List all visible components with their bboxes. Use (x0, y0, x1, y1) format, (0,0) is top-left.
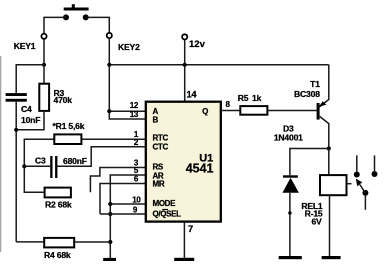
svg-text:12v: 12v (189, 39, 206, 50)
svg-text:KEY2: KEY2 (118, 42, 140, 52)
svg-text:RS: RS (153, 163, 164, 172)
svg-text:C4: C4 (21, 104, 32, 114)
svg-text:RTC: RTC (153, 133, 169, 142)
svg-text:MODE: MODE (153, 199, 177, 208)
svg-text:KEY1: KEY1 (14, 41, 36, 51)
svg-text:BC308: BC308 (294, 89, 320, 99)
svg-text:CTC: CTC (153, 143, 169, 152)
svg-text:*R1 5,6k: *R1 5,6k (53, 121, 85, 131)
svg-text:Q: Q (202, 107, 208, 116)
svg-text:B: B (153, 115, 159, 124)
svg-text:10: 10 (132, 195, 141, 204)
svg-text:R5: R5 (238, 93, 249, 103)
svg-text:1k: 1k (252, 93, 262, 103)
svg-text:R2 68k: R2 68k (45, 199, 72, 209)
svg-text:680nF: 680nF (63, 156, 87, 166)
svg-text:T1: T1 (310, 79, 320, 89)
svg-text:470k: 470k (54, 95, 73, 105)
svg-text:7: 7 (188, 224, 193, 234)
svg-text:12: 12 (130, 101, 139, 110)
svg-text:C3: C3 (35, 156, 46, 166)
svg-text:14: 14 (187, 89, 198, 99)
svg-text:1N4001: 1N4001 (274, 133, 303, 143)
svg-text:R4 68k: R4 68k (44, 250, 71, 260)
svg-text:10nF: 10nF (21, 115, 40, 125)
svg-text:4541: 4541 (186, 162, 214, 176)
svg-text:MR: MR (153, 179, 165, 188)
svg-text:6V: 6V (311, 217, 322, 227)
svg-text:13: 13 (130, 110, 139, 119)
svg-text:Q/QSEL: Q/QSEL (153, 209, 182, 218)
